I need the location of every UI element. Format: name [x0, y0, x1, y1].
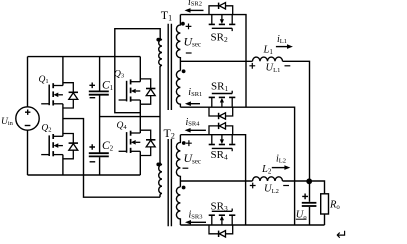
transformer T2 secondary lower winding: [176, 187, 180, 225]
capacitor C1: [89, 57, 109, 153]
rectifier SR3 (mirrored): [209, 209, 236, 238]
svg-text:iSR4: iSR4: [186, 117, 201, 128]
current iSR4 arrow: [185, 128, 206, 133]
transformer T2 core: [168, 139, 171, 226]
wire leg1 midpoint tap to T2 primary bottom: [63, 119, 160, 198]
svg-text:SR2: SR2: [211, 32, 228, 45]
UL2 + sign: [250, 183, 256, 189]
transformer T2 primary winding: [159, 162, 162, 195]
svg-text:iSR2: iSR2: [188, 0, 202, 8]
wire capacitor midpoint to transformer center link: [100, 116, 160, 118]
wire T2 primary bottom: [159, 195, 161, 197]
svg-text:L1: L1: [263, 45, 274, 57]
svg-text:C2: C2: [102, 140, 114, 153]
T2 secondary upper -: [183, 167, 189, 169]
svg-text:iSR3: iSR3: [189, 210, 203, 221]
wire SR3 rail / output return: [180, 224, 324, 226]
transformer T1 secondary lower winding: [176, 71, 180, 108]
T1 secondary upper +: [186, 24, 192, 30]
svg-text:Q3: Q3: [114, 69, 124, 79]
svg-text:Uin: Uin: [1, 117, 14, 127]
wire T2 upper secondary to SR4 and bus down to SR3 rail: [180, 135, 245, 225]
wire L1 to output node: [283, 61, 310, 181]
svg-text:SR1: SR1: [211, 80, 228, 93]
T2 secondary lower dot: [182, 186, 186, 190]
UL2 - sign: [283, 185, 289, 187]
wire bottom rail primary: [28, 174, 141, 176]
voltage source Uin: [16, 57, 39, 175]
transistor Q4: [119, 130, 156, 155]
rectifier SR1 (mirrored): [209, 91, 236, 120]
transistor Q3: [119, 79, 156, 104]
wire T1 center tap to L1: [180, 60, 252, 62]
wire leg1 bottom: Q2 source to rail: [62, 155, 64, 175]
current iSR3 arrow: [185, 220, 206, 225]
capacitor Uo: [302, 181, 317, 225]
transistor Q1: [41, 83, 78, 108]
svg-text:C1: C1: [102, 79, 114, 92]
wire T1 upper secondary to SR2 and down to SR1 rail: [180, 15, 246, 108]
T2 secondary upper +: [186, 140, 192, 146]
current iSR1 arrow: [185, 101, 200, 106]
current iSR2 arrow: [185, 8, 204, 13]
svg-text:SR4: SR4: [211, 149, 228, 162]
svg-text:Usec: Usec: [184, 151, 201, 165]
svg-text:UL1: UL1: [266, 63, 281, 75]
transformer T1 core: [168, 24, 171, 110]
inductor L1: [253, 57, 283, 61]
svg-text:Usec: Usec: [184, 34, 201, 48]
svg-text:iL1: iL1: [277, 34, 287, 45]
svg-text:SR3: SR3: [211, 200, 228, 213]
T1 secondary upper dot: [181, 22, 185, 26]
current iL1 arrow: [276, 44, 293, 49]
transformer T1 primary winding: [159, 38, 162, 67]
T1 primary dot: [156, 38, 160, 42]
transformer T1 secondary upper winding: [176, 15, 180, 71]
rectifier SR4: [209, 123, 236, 152]
wire T1 primary bottom to T2 primary top: [159, 67, 161, 163]
T2 secondary upper dot: [182, 141, 186, 145]
T1 secondary lower dot: [182, 69, 186, 73]
current iL2 arrow: [272, 165, 291, 170]
svg-text:iL2: iL2: [276, 154, 286, 165]
wire SR1 rail: T1 lower secondary to return: [180, 107, 294, 225]
rectifier SR2: [209, 3, 236, 32]
capacitor C2: [89, 144, 109, 175]
transistor Q2: [41, 134, 78, 159]
wire T2 center tap to L2: [180, 180, 252, 182]
svg-text:T2: T2: [164, 126, 175, 141]
wire leg2 mid: Q3 source to Q4 drain: [139, 100, 141, 133]
T2 primary dot: [156, 163, 160, 167]
svg-text:UL2: UL2: [264, 183, 279, 195]
inductor L2: [253, 177, 283, 181]
svg-text:Q2: Q2: [41, 123, 51, 133]
UL1 - sign: [285, 65, 291, 67]
resistor RL: [321, 194, 329, 225]
svg-text:L2: L2: [261, 164, 272, 176]
T1 secondary upper -: [186, 52, 192, 54]
wire top rail: [28, 56, 141, 58]
wire leg2 bottom: Q4 source to rail: [139, 151, 141, 175]
svg-text:Q4: Q4: [117, 121, 128, 131]
wire L2 to output node and RL: [283, 181, 325, 194]
wire leg2 top: rail corner to Q3 drain: [139, 57, 141, 82]
output node junction dot: [306, 178, 312, 184]
wire leg1 top: rail to Q1 drain: [62, 57, 64, 86]
UL1 + sign: [249, 63, 255, 69]
svg-text:iSR1: iSR1: [188, 87, 202, 98]
transformer T2 secondary upper winding: [176, 135, 180, 187]
wire leg1 mid: Q1 source to Q2 drain: [62, 104, 64, 137]
wire T1 primary top to leg2 midpoint: [115, 29, 160, 113]
svg-text:Ro: Ro: [329, 200, 340, 212]
svg-text:Q1: Q1: [39, 75, 49, 85]
svg-text:T1: T1: [161, 8, 172, 23]
svg-text:↵: ↵: [336, 229, 348, 244]
